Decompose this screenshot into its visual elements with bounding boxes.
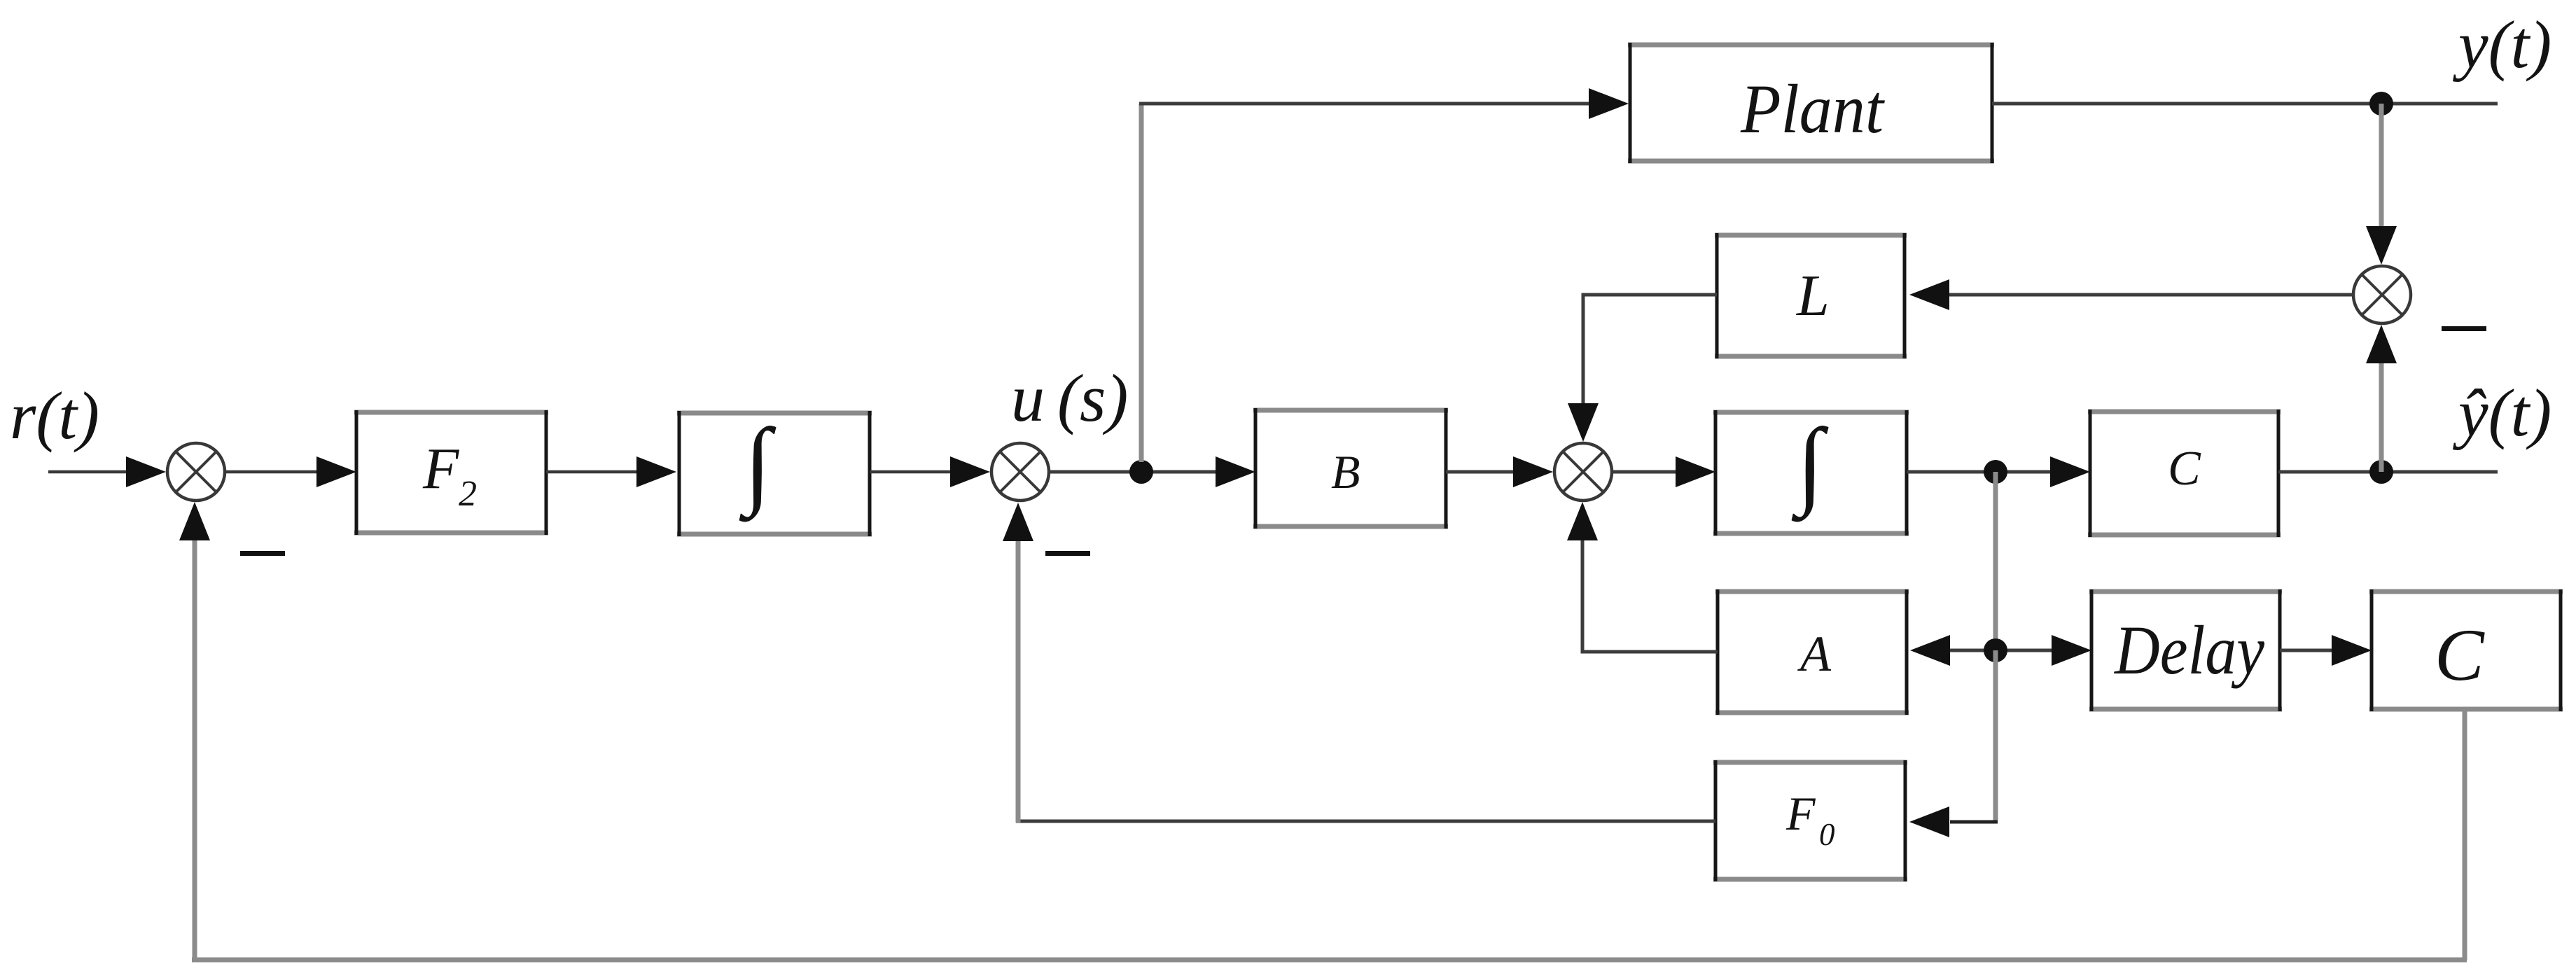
minus sign at S2 lower input — [1045, 551, 1090, 556]
wire: A-row node down and left into F0 — [1909, 650, 1998, 837]
junction dot y(t) — [2369, 92, 2393, 116]
wire: S1 to F2 — [225, 456, 356, 487]
wire arrow into B — [1216, 456, 1255, 487]
block Delay — [2089, 589, 2282, 711]
junction dot A row — [1984, 638, 2007, 662]
wire: y-hat node up into S4 — [2366, 325, 2397, 472]
svg-text:B: B — [1331, 445, 1360, 498]
wire: Delay to C2 — [2280, 635, 2372, 666]
block A — [1715, 589, 1909, 715]
svg-text:L: L — [1796, 263, 1830, 328]
block B — [1253, 408, 1448, 529]
block F0 — [1713, 760, 1907, 881]
svg-text:F: F — [1785, 787, 1816, 840]
svg-text:∫: ∫ — [739, 409, 777, 522]
block integrator I2 — [1713, 409, 1909, 536]
wire: A output left and up into S3 — [1567, 502, 1718, 652]
block L — [1715, 233, 1907, 358]
summing junction S3 — [1554, 443, 1612, 501]
svg-text:Plant: Plant — [1740, 70, 1885, 148]
junction dot u(s) — [1129, 460, 1153, 484]
svg-text:2: 2 — [459, 474, 477, 514]
svg-text:A: A — [1797, 626, 1832, 682]
block C2 (delayed output) — [2369, 589, 2563, 711]
wire: x-hat node down to A row — [1993, 472, 1998, 650]
svg-text:Delay: Delay — [2113, 611, 2264, 689]
wire: C output to y-hat with junction node — [2278, 470, 2498, 474]
svg-text:ŷ(t): ŷ(t) — [2452, 375, 2551, 450]
wire: F0 output left and up into S2 — [1003, 503, 1715, 823]
wire: S3 to integrator I2 — [1612, 456, 1715, 487]
minus sign at S4 lower input — [2442, 326, 2486, 331]
wire: I1 to summing junction S2 — [870, 456, 990, 487]
block Plant — [1628, 43, 1994, 163]
wire: vertical from u(s) node up to Plant feed line — [1139, 104, 1144, 462]
wire: S2 to block B with junction node — [1049, 470, 1218, 474]
svg-text:r(t): r(t) — [10, 378, 99, 453]
svg-text:0: 0 — [1819, 817, 1835, 852]
svg-text:(s): (s) — [1057, 361, 1128, 435]
wire arrow into C — [2050, 456, 2090, 487]
block F2 — [354, 410, 548, 535]
wire: Plant output to y(t) with junction node — [1992, 102, 2498, 106]
wire: S4 output into block L — [1909, 279, 2353, 310]
svg-text:u: u — [1011, 361, 1045, 435]
wire: y(t) node down into summing junction S4 — [2366, 104, 2397, 265]
wire: I2 output to C with junction node — [1907, 470, 2052, 474]
junction dot x-hat — [1984, 460, 2007, 484]
svg-text:y(t): y(t) — [2452, 7, 2551, 82]
wire: F2 to integrator I1 — [546, 456, 676, 487]
summing junction S1 — [167, 443, 225, 501]
svg-text:C: C — [2435, 614, 2485, 696]
wire: input line from r(t) to summing junction S1 — [48, 456, 166, 487]
minus sign at S1 lower input — [240, 551, 285, 556]
summing junction S4 — [2353, 266, 2411, 323]
wire: B output into summing junction S3 — [1446, 456, 1553, 487]
block integrator I1 — [677, 409, 872, 536]
wire: horizontal feed into Plant — [1139, 88, 1629, 119]
wire: bottom feedback up into S1 — [179, 502, 210, 960]
svg-text:∫: ∫ — [1791, 409, 1829, 522]
summing junction S2 — [991, 443, 1049, 501]
junction dot y-hat — [2369, 460, 2393, 484]
block C (observer output) — [2088, 410, 2281, 537]
svg-text:F: F — [422, 436, 460, 501]
svg-text:C: C — [2168, 442, 2201, 496]
wire: C2 down to bottom feedback line — [2463, 709, 2467, 960]
wire: A row horizontal with arrows into A and Delay — [1910, 635, 2091, 666]
wire: bottom feedback line — [192, 958, 2467, 963]
wire: L output left and down into summing junction S3 — [1568, 295, 1717, 442]
